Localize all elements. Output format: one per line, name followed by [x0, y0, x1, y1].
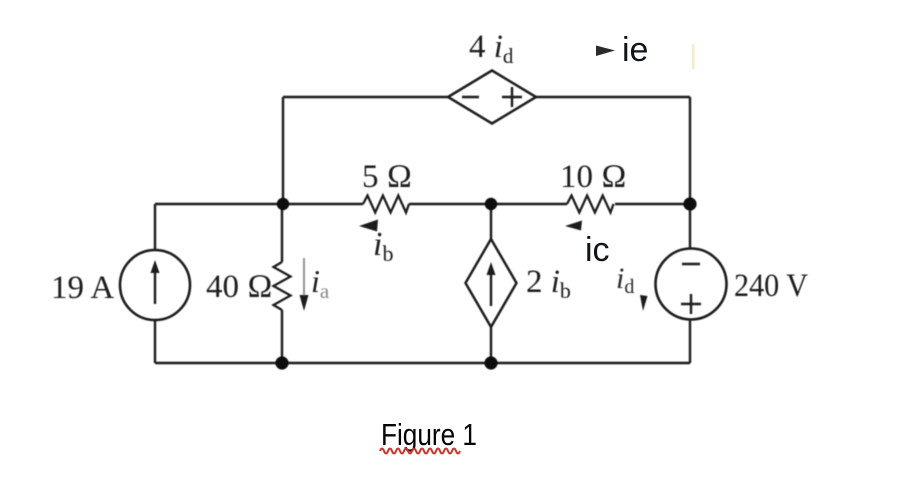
wire right drop from top rail to node C: [689, 97, 691, 204]
resistor 5 ohm: [363, 196, 409, 213]
wire 2ib branch bottom: [490, 327, 492, 363]
wire right branch above 240V source: [689, 204, 691, 249]
minus sign inside 240V: [682, 263, 700, 265]
voltage source 240V circle: [656, 249, 727, 320]
current source 19A circle: [120, 250, 190, 320]
wire 2ib branch top: [490, 204, 492, 239]
wire left branch above 19A source: [154, 204, 156, 250]
dependent voltage source 4id diamond: [448, 71, 536, 124]
node B dot (top of 40 ohm): [277, 198, 289, 210]
wire right branch below 240V source: [689, 319, 691, 363]
node middle dot (top of 2ib): [485, 198, 497, 210]
resistor 40 ohm: [274, 262, 291, 310]
current source 19A arrow: [151, 260, 160, 304]
wire left branch below 19A source: [154, 320, 156, 363]
node dot bottom of 40 ohm: [275, 356, 288, 369]
svg-text:ic: ic: [585, 231, 610, 269]
wire bottom rail: [155, 362, 690, 364]
minus sign inside 4id: [462, 96, 479, 98]
svg-text:id: id: [616, 262, 634, 298]
svg-text:40 Ω: 40 Ω: [206, 269, 273, 305]
wire left drop from top rail to node B: [282, 97, 284, 204]
wire top rail right (dependent source to right corner): [536, 96, 690, 98]
wire middle rail center segment: [409, 203, 567, 205]
wire middle rail right segment: [615, 203, 690, 205]
annotation arrow ie: [596, 46, 615, 57]
plus sign inside 240V: [681, 294, 701, 314]
svg-text:19 A: 19 A: [51, 270, 114, 306]
svg-text:Figure 1: Figure 1: [381, 417, 477, 452]
2ib arrow: [487, 262, 496, 306]
svg-text:2 ib: 2 ib: [526, 264, 571, 303]
svg-text:ia: ia: [311, 263, 330, 303]
svg-text:240 V: 240 V: [734, 268, 808, 304]
faint yellow artifact: [692, 44, 695, 69]
svg-text:ie: ie: [622, 31, 648, 69]
svg-text:5 Ω: 5 Ω: [362, 159, 412, 195]
resistor 10 ohm: [567, 196, 613, 213]
wire middle rail left segment: [155, 203, 363, 205]
dependent current source 2ib diamond: [466, 239, 517, 327]
node dot bottom of 2ib: [484, 356, 497, 369]
red squiggly underline: [380, 449, 460, 454]
arrow ib (left pointing): [359, 220, 378, 232]
svg-text:4 id: 4 id: [469, 29, 514, 68]
plus sign inside 4id: [502, 87, 522, 107]
arrow ic (left pointing): [565, 221, 582, 231]
arrow ia head: [300, 295, 309, 311]
wire 40-ohm branch top: [281, 204, 283, 262]
arrow ia gray shaft: [303, 258, 305, 297]
wire 40-ohm branch bottom: [281, 310, 283, 363]
node C dot (top of 240V): [683, 197, 696, 210]
svg-text:10 Ω: 10 Ω: [560, 159, 627, 195]
wire top rail left (node B to dependent source): [283, 96, 448, 98]
svg-text:ib: ib: [373, 226, 393, 266]
arrow id (down pointing): [640, 295, 648, 311]
